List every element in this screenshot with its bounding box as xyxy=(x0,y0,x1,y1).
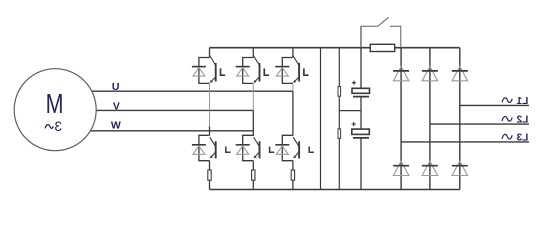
IGBT transistor symbol of module V3 xyxy=(293,56,299,83)
capacitor C2 (electrolytic, + plate) xyxy=(352,129,370,138)
rectifier leg 1 conductor xyxy=(400,48,402,190)
wire capacitor C2 to DC- rail xyxy=(360,138,362,190)
wire emitter of V4 to shunt resistor xyxy=(209,161,211,170)
rectifier diode D1 (top) xyxy=(393,67,409,81)
wire DC link capacitor branch upper xyxy=(360,26,362,88)
rectifier diode D4 (bottom) xyxy=(393,161,409,175)
wire supply L3 xyxy=(401,141,529,143)
wire between capacitors xyxy=(360,97,362,130)
IGBT transistor symbol of module V4 xyxy=(210,137,216,158)
wire DC midpoint link xyxy=(339,110,361,112)
balancing resistor R2 xyxy=(338,129,341,139)
rectifier leg 3 conductor xyxy=(459,48,461,190)
freewheel diode of module V6 xyxy=(275,145,289,155)
freewheel diode of module V4 xyxy=(192,145,206,155)
IGBT transistor symbol of module V5 xyxy=(254,137,260,158)
IGBT module V2 (top inverter leg 2) xyxy=(243,48,254,84)
wire phase V from motor to inverter leg 2 xyxy=(90,109,254,111)
motor M1 circle (3-phase AC motor) xyxy=(14,69,96,151)
label L1 (mirrored) xyxy=(502,96,528,107)
polarity + of C1 xyxy=(352,81,356,85)
shunt resistor below module V4 xyxy=(208,170,211,180)
rectifier leg 2 conductor xyxy=(429,48,431,190)
motor label 3~ (mirrored) xyxy=(54,119,62,134)
gate lead of module V5 xyxy=(270,147,275,153)
wire emitter of V5 to shunt resistor xyxy=(252,161,254,170)
braking resistor R3 xyxy=(370,44,395,51)
svg-text:U: U xyxy=(112,81,120,93)
freewheel diode of module V2 xyxy=(236,67,250,77)
wire chopper bypass left xyxy=(361,26,377,48)
wire phase U from motor to inverter leg 3 xyxy=(86,90,293,92)
gate lead of module V4 xyxy=(226,147,231,153)
wire emitter of V6 to shunt resistor xyxy=(292,161,294,170)
IGBT module V6 (bottom inverter leg) xyxy=(282,135,293,160)
IGBT module V4 (bottom inverter leg) xyxy=(199,135,210,160)
gate lead of module V2 xyxy=(264,68,269,75)
svg-text:L1: L1 xyxy=(516,96,528,107)
wire supply L2 xyxy=(430,123,529,125)
gate lead of module V6 xyxy=(309,147,314,153)
IGBT transistor symbol of module V2 xyxy=(254,56,260,83)
svg-text:M: M xyxy=(46,90,64,120)
shunt resistor below module V5 xyxy=(252,170,255,180)
wire inverter leg 2 midpoint vertical xyxy=(252,83,254,135)
rectifier diode D2 (top) xyxy=(422,67,438,81)
motor label M xyxy=(46,90,64,120)
wire supply L1 xyxy=(460,104,529,106)
svg-text:V: V xyxy=(113,100,120,112)
svg-text:3: 3 xyxy=(54,119,62,134)
IGBT transistor symbol of module V1 xyxy=(210,56,216,83)
freewheel diode of module V5 xyxy=(236,145,250,155)
wire balancing resistor branch vertical xyxy=(338,48,340,190)
switch S1 (brake chopper, open blade) xyxy=(377,17,388,26)
balancing resistor R1 xyxy=(338,87,341,97)
svg-text:W: W xyxy=(111,119,121,131)
wire phase W from motor to inverter leg 2 lower xyxy=(86,130,254,132)
IGBT transistor symbol of module V6 xyxy=(293,137,299,158)
polarity + of C2 xyxy=(352,122,356,126)
wire chopper bypass right xyxy=(390,26,401,48)
svg-text:L3: L3 xyxy=(516,132,528,143)
wire DC bus tie (inverter side vertical) xyxy=(320,48,322,190)
gate lead of module V3 xyxy=(304,68,309,75)
label L3 (mirrored) xyxy=(502,132,528,143)
rectifier diode D5 (bottom) xyxy=(422,161,438,175)
wire shunt resistor to DC- rail xyxy=(292,180,294,189)
wire shunt resistor to DC- rail xyxy=(209,180,211,189)
IGBT module V5 (bottom inverter leg) xyxy=(243,135,254,160)
wire DC- bottom rail xyxy=(210,189,460,191)
freewheel diode of module V3 xyxy=(275,67,289,77)
freewheel diode of module V1 xyxy=(192,67,206,77)
wire shunt resistor to DC- rail xyxy=(252,180,254,189)
motor label sine squiggle xyxy=(45,125,53,129)
wire DC+ top rail xyxy=(210,47,460,49)
IGBT module V3 (top inverter leg 3) xyxy=(282,48,293,84)
rectifier diode D6 (bottom) xyxy=(452,161,468,175)
rectifier diode D3 (top) xyxy=(452,67,468,81)
svg-text:L2: L2 xyxy=(516,115,528,126)
IGBT module V1 (top inverter leg 1) xyxy=(199,48,210,84)
shunt resistor below module V6 xyxy=(291,170,294,180)
gate lead of module V1 xyxy=(221,68,226,75)
capacitor C1 (electrolytic, + plate) xyxy=(352,88,370,96)
wire inverter leg 1 midpoint vertical xyxy=(209,83,211,135)
wire inverter leg 3 midpoint vertical xyxy=(292,84,294,135)
label L2 (mirrored) xyxy=(502,115,528,126)
